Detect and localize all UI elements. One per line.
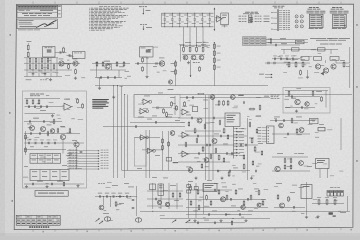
- wire: [185, 222, 245, 224]
- reference label: [194, 58, 198, 61]
- reference label: [125, 70, 130, 73]
- ribbon header U11 direction arrow: [344, 16, 346, 27]
- component box K13: [310, 118, 319, 124]
- capacitor C4: [44, 73, 47, 74]
- label: [205, 122, 210, 125]
- reference label: [104, 209, 107, 212]
- wire: [103, 126, 185, 128]
- ground: [76, 184, 79, 187]
- wire: [336, 62, 350, 64]
- transistor Q4: [159, 61, 164, 66]
- reference label: [30, 69, 34, 72]
- reference label: [255, 190, 258, 193]
- label K1: [45, 46, 53, 49]
- resistor R90: [188, 121, 190, 127]
- label: [261, 198, 266, 201]
- reference label: [313, 198, 318, 201]
- capacitor C24: [192, 13, 199, 28]
- label R24: [204, 45, 208, 48]
- reference label: [56, 114, 60, 117]
- reference label: [66, 63, 71, 66]
- junction: [214, 42, 215, 43]
- wire: [186, 214, 252, 216]
- reference label: [332, 58, 336, 61]
- wire: [95, 85, 268, 87]
- label: [258, 142, 263, 145]
- wire: [312, 203, 344, 205]
- junction: [129, 195, 132, 198]
- capacitor C21: [28, 105, 29, 108]
- reference label: [312, 162, 317, 165]
- resistor R49: [194, 128, 196, 134]
- wire: [272, 133, 310, 135]
- arrow symbol: [172, 220, 177, 223]
- resistor R38: [312, 90, 314, 96]
- resistor R39: [321, 96, 323, 102]
- label: [152, 115, 157, 118]
- node A: [27, 40, 32, 43]
- wire: [266, 44, 300, 46]
- label: [166, 116, 172, 119]
- label: [57, 180, 63, 183]
- resistor R53: [251, 137, 253, 143]
- transistor Q26: [165, 202, 169, 206]
- reference label: [228, 154, 233, 157]
- label: [152, 176, 157, 179]
- transistor Q10: [323, 68, 328, 73]
- wire: [186, 198, 265, 200]
- table side note: [268, 38, 272, 41]
- resistor R46c: [176, 105, 178, 111]
- label: [222, 186, 227, 189]
- reference label: [312, 120, 315, 123]
- wire: [285, 107, 315, 109]
- reference label: [41, 72, 46, 75]
- capacitor C52: [247, 198, 248, 201]
- reference label: [292, 59, 295, 62]
- wire: [202, 27, 204, 47]
- label Q12: [291, 97, 296, 100]
- transistor Q17: [204, 158, 209, 163]
- resistor R69: [210, 200, 212, 206]
- label: [168, 88, 174, 91]
- capacitor C8: [137, 62, 138, 65]
- reference label: [49, 101, 54, 104]
- reference label: [214, 182, 218, 185]
- ribbon header U11 bottom label: [332, 27, 346, 30]
- jack circle P3: [295, 25, 298, 28]
- resistor R67: [190, 200, 192, 206]
- label net: [26, 79, 32, 82]
- wire: [24, 76, 62, 78]
- junction: [124, 94, 125, 95]
- label: [214, 133, 219, 136]
- resistor R45: [163, 108, 165, 114]
- reference label: [77, 106, 81, 109]
- reference label: [159, 107, 164, 110]
- reference label: [142, 56, 147, 59]
- label: [112, 184, 118, 187]
- wire: [186, 189, 232, 191]
- wire: [142, 149, 163, 151]
- component box K17: [192, 106, 197, 111]
- label dark: [198, 92, 205, 95]
- resistor R78: [296, 128, 298, 134]
- reference label: [242, 128, 247, 131]
- switch block S1: [30, 154, 61, 164]
- wire: [32, 58, 34, 77]
- reference label: [256, 165, 259, 168]
- signal stub 2: [67, 152, 109, 154]
- resistor R95: [57, 128, 59, 134]
- label R25: [217, 45, 221, 48]
- reference label: [323, 163, 327, 166]
- reference label: [173, 107, 177, 110]
- label Q22: [67, 132, 72, 135]
- wire: [92, 63, 130, 65]
- label R9: [34, 71, 38, 74]
- capacitor C54: [225, 213, 226, 216]
- label R10: [40, 71, 44, 74]
- resistor R46b: [171, 101, 173, 107]
- label: [233, 167, 238, 170]
- reference label: [38, 70, 42, 73]
- capacitor C9: [156, 62, 157, 65]
- reference label: [311, 48, 316, 51]
- bus rail bottom: [162, 26, 214, 28]
- reference label: [62, 63, 67, 66]
- label dark: [238, 94, 244, 97]
- op-amp U5: [181, 151, 190, 157]
- label: [207, 179, 212, 182]
- wire: [134, 94, 352, 96]
- wire: [266, 39, 308, 41]
- op-amp U8: [139, 135, 147, 140]
- wire: [307, 70, 309, 76]
- connector J1 left stub 4: [271, 28, 277, 31]
- reference label: [46, 94, 49, 97]
- wire: [24, 62, 80, 64]
- resistor R8: [29, 64, 31, 70]
- reference label: [58, 117, 61, 120]
- label Q1: [59, 58, 64, 61]
- ground: [219, 219, 222, 222]
- junction: [109, 195, 112, 198]
- wire: [176, 183, 178, 209]
- wire: [118, 70, 120, 78]
- label C44: [111, 192, 115, 195]
- resistor R95: [223, 157, 225, 163]
- wire: [185, 130, 221, 132]
- transistor Q22: [60, 134, 65, 139]
- net label: [193, 61, 200, 64]
- wire: [265, 62, 310, 64]
- label: [33, 117, 39, 120]
- wire: [50, 58, 52, 77]
- label: [238, 188, 243, 191]
- label: [128, 186, 134, 189]
- reference label: [207, 46, 210, 49]
- wire: [62, 140, 64, 154]
- resistor R47: [218, 100, 220, 106]
- reference label: [159, 190, 164, 193]
- transistor Q9: [315, 64, 320, 69]
- wire: [76, 147, 78, 170]
- resistor R75: [243, 200, 245, 206]
- resistor R86: [318, 199, 320, 206]
- reference label: [300, 56, 303, 59]
- label: [40, 109, 46, 112]
- label TB1: [330, 186, 340, 189]
- reference label: [179, 43, 185, 46]
- resistor R26: [213, 50, 215, 57]
- wire: [306, 182, 308, 215]
- wire: [325, 60, 327, 63]
- ground: [49, 78, 52, 81]
- resistor R96: [243, 154, 245, 160]
- reference label: [293, 122, 298, 125]
- box label: [271, 95, 280, 99]
- wire: [113, 86, 115, 178]
- label V+: [280, 37, 286, 40]
- jack circle P2: [295, 20, 298, 23]
- reference label: [182, 105, 187, 108]
- capacitor C11: [270, 41, 271, 44]
- reference label: [226, 213, 231, 216]
- junction: [115, 195, 118, 198]
- resistor R52: [223, 128, 225, 134]
- wire: [121, 86, 123, 171]
- label: [119, 202, 124, 205]
- wire: [272, 156, 308, 158]
- capacitor C15: [286, 58, 287, 61]
- ground: [295, 110, 298, 113]
- wire: [24, 142, 84, 144]
- junction: [102, 195, 105, 198]
- reference label: [163, 189, 168, 192]
- resistor R48c: [184, 101, 186, 107]
- buffer circle: [146, 110, 149, 113]
- text note row: [310, 38, 350, 40]
- label R21: [185, 45, 189, 48]
- transistor Q19: [30, 126, 35, 131]
- wire: [160, 183, 162, 209]
- resistor R30: [175, 69, 177, 75]
- reference label: [294, 152, 297, 155]
- wire: [24, 133, 80, 135]
- capacitor C16: [292, 58, 293, 61]
- wire: [347, 196, 349, 211]
- connector J1 pin 7: [279, 20, 290, 23]
- reference label: [106, 186, 111, 189]
- junction: [196, 45, 197, 46]
- reference label: [40, 156, 45, 159]
- arrow symbol: [186, 220, 191, 223]
- dark component blob: [329, 212, 336, 217]
- label K13: [311, 119, 317, 122]
- reference label: [254, 207, 258, 210]
- wire: [283, 49, 285, 54]
- resistor R20: [142, 66, 144, 72]
- reference label: [292, 210, 296, 213]
- reference label: [241, 216, 244, 219]
- reference label: [308, 123, 313, 126]
- wire: [44, 58, 46, 77]
- capacitor C7: [115, 76, 116, 79]
- reference label: [298, 77, 303, 80]
- ground: [250, 177, 253, 180]
- ground: [98, 87, 101, 90]
- label R35: [340, 59, 345, 62]
- reference label: [28, 126, 33, 129]
- reference label: [153, 46, 158, 49]
- wire: [133, 95, 135, 118]
- resistor R59: [25, 147, 27, 153]
- reference label: [97, 77, 101, 80]
- reference label: [163, 70, 167, 73]
- wire: [110, 197, 112, 208]
- transistor Q11: [331, 64, 336, 69]
- resistor R89: [231, 220, 232, 225]
- reference label: [258, 163, 262, 166]
- component box K16: [166, 158, 172, 161]
- label: [223, 143, 228, 146]
- label: [163, 177, 168, 180]
- resistor R47c: [162, 145, 164, 151]
- wire: [168, 183, 170, 209]
- transistor Q15: [197, 118, 202, 123]
- label: [298, 152, 304, 155]
- capacitor C57: [283, 119, 284, 122]
- label R32: [287, 58, 291, 61]
- resistor R43: [77, 98, 79, 104]
- wire: [124, 95, 126, 179]
- capacitor C10: [270, 38, 271, 41]
- resistor R47b: [162, 138, 164, 144]
- reference label: [205, 165, 209, 168]
- reference label: [78, 167, 82, 170]
- ground: [51, 114, 54, 117]
- resistor R34: [302, 61, 304, 68]
- reference label: [188, 100, 191, 103]
- resistor R28: [213, 64, 215, 71]
- wire: [270, 120, 315, 122]
- wire: [24, 57, 58, 59]
- capacitor C39: [55, 142, 56, 145]
- resistor R98: [256, 128, 258, 134]
- resistor R57: [53, 119, 55, 125]
- resistor R37: [288, 90, 290, 96]
- sub box 3: [134, 138, 146, 166]
- op-amp U3: [181, 109, 190, 115]
- label C39: [53, 139, 57, 142]
- ground: [194, 177, 197, 180]
- capacitor C45: [120, 195, 121, 198]
- label C9: [153, 65, 157, 68]
- resistor R62: [172, 192, 174, 198]
- reference label: [95, 62, 98, 65]
- reference label: [59, 64, 62, 67]
- resistor R91: [196, 138, 198, 144]
- ground: [316, 215, 319, 218]
- reference label: [304, 165, 309, 168]
- transistor Q28: [241, 205, 245, 209]
- label: [248, 210, 253, 213]
- reference label: [68, 152, 73, 155]
- reference label: [160, 214, 165, 217]
- resistor R70: [218, 189, 220, 195]
- wire: [127, 95, 129, 171]
- reference label: [274, 117, 277, 120]
- transistor Q15c: [231, 95, 236, 100]
- reference label: [292, 184, 297, 187]
- wire: [325, 91, 327, 108]
- label Q3: [104, 60, 110, 63]
- label: [155, 154, 160, 157]
- label: [98, 182, 105, 185]
- wire: [38, 58, 40, 77]
- wire: [335, 60, 337, 63]
- wire: [180, 97, 270, 99]
- wire: [178, 153, 240, 155]
- resistor R6: [41, 57, 43, 63]
- wire: [147, 205, 183, 207]
- reference label: [284, 136, 287, 139]
- capacitor C13: [274, 58, 275, 61]
- power tap -15V: [140, 24, 152, 30]
- capacitor C67: [229, 170, 230, 173]
- reference label: [217, 170, 220, 173]
- reference label: [287, 158, 292, 161]
- reference label: [264, 188, 269, 191]
- capacitor C27: [192, 96, 193, 99]
- junction: [232, 218, 233, 219]
- label Q19: [27, 123, 32, 126]
- reference label: [107, 181, 112, 184]
- reference label: [251, 175, 255, 178]
- reference label: [168, 113, 173, 116]
- resistor R73: [250, 195, 252, 201]
- wire: [27, 43, 29, 45]
- junction: [122, 195, 125, 198]
- transistor Q5: [183, 55, 188, 60]
- wire: [178, 161, 230, 163]
- revision table side column: [58, 5, 62, 17]
- capacitor C23: [184, 13, 191, 28]
- label: [274, 116, 280, 119]
- buffer circle: [146, 136, 149, 139]
- transistor Q30: [279, 123, 284, 128]
- capacitor C63: [206, 144, 207, 147]
- capacitor C27b: [243, 101, 244, 104]
- wire: [111, 64, 113, 71]
- capacitor C64: [245, 144, 246, 147]
- reference label: [304, 108, 309, 111]
- component box K14: [301, 185, 312, 199]
- reference label: [329, 37, 332, 40]
- capacitor C49: [155, 198, 156, 201]
- transistor Q13: [305, 102, 309, 106]
- reference label: [318, 52, 322, 55]
- wire: [178, 135, 247, 137]
- wire: [99, 78, 101, 87]
- wire: [149, 130, 151, 178]
- wire: [266, 41, 308, 43]
- component box K10: [150, 184, 156, 190]
- capacitor C20: [301, 106, 302, 109]
- buffer circle: [149, 100, 152, 103]
- label: [264, 95, 269, 98]
